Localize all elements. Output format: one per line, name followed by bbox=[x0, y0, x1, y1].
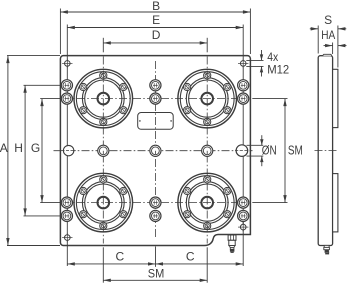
centerline horizontal middle row bbox=[54, 150, 253, 152]
hole column right bbox=[242, 25, 244, 232]
dimension D bbox=[103, 28, 207, 52]
side view grease nipple bbox=[324, 245, 330, 254]
dimension B bbox=[60, 0, 250, 54]
centerline vertical left flange column bbox=[102, 57, 104, 244]
plate outline bbox=[60, 56, 250, 246]
side view centerline bbox=[315, 149, 337, 151]
dimension N right bbox=[247, 135, 277, 166]
nameplate bbox=[138, 113, 174, 130]
dimension S bbox=[310, 13, 347, 68]
corner hole bottom-right bbox=[238, 222, 248, 232]
centerline vertical middle column bbox=[154, 61, 156, 237]
flange U3 bottom-left bbox=[74, 173, 133, 232]
mid hole row center bbox=[150, 145, 161, 156]
grease nipple front view bbox=[228, 235, 236, 253]
centerline horizontal bottom flange row bbox=[63, 202, 249, 204]
svg-text:H: H bbox=[14, 141, 23, 155]
dimension 4x M12 bbox=[246, 50, 289, 77]
mid hole left edge bbox=[62, 145, 76, 155]
flange U2 top-right bbox=[178, 69, 237, 128]
dimension HA bbox=[321, 28, 346, 54]
side view top lip bbox=[323, 54, 332, 55]
dimension SM right bbox=[252, 99, 303, 203]
svg-text:G: G bbox=[31, 141, 40, 155]
dimension C pair bbox=[67, 247, 243, 267]
side plug pair center bottom bbox=[150, 197, 161, 221]
svg-text:HA: HA bbox=[321, 28, 335, 42]
side plug pair center top bbox=[150, 80, 161, 104]
svg-text:S: S bbox=[324, 13, 332, 27]
hole column right lower (corner hole to C dim) bbox=[242, 221, 244, 266]
side view boss top bbox=[333, 69, 338, 127]
svg-text:A: A bbox=[0, 141, 8, 155]
side view body bbox=[318, 56, 332, 246]
side view boss bottom bbox=[333, 174, 338, 232]
svg-text:B: B bbox=[152, 0, 160, 13]
hole N right edge bbox=[235, 145, 249, 157]
svg-text:ØN: ØN bbox=[262, 144, 277, 158]
dimension E bbox=[67, 13, 243, 29]
svg-text:C: C bbox=[115, 250, 124, 264]
mid hole row right flange column bbox=[202, 145, 213, 156]
flange U4 bottom-right bbox=[178, 173, 237, 232]
side plug pair left top bbox=[61, 80, 72, 104]
dimension SM bottom bbox=[103, 247, 207, 282]
dimension H bbox=[14, 85, 61, 216]
svg-text:C: C bbox=[186, 250, 195, 264]
svg-text:M12: M12 bbox=[267, 62, 289, 76]
hole column left bbox=[66, 25, 68, 267]
side plug pair right top bbox=[238, 80, 249, 104]
svg-text:E: E bbox=[152, 13, 160, 27]
flange U1 top-left bbox=[74, 69, 133, 128]
dimension G bbox=[31, 99, 61, 203]
side plug pair right bottom bbox=[238, 197, 249, 221]
centerline horizontal top flange row bbox=[63, 98, 249, 100]
svg-text:SM: SM bbox=[288, 144, 303, 158]
svg-text:SM: SM bbox=[148, 267, 165, 281]
svg-text:D: D bbox=[152, 28, 161, 42]
corner hole bottom-left bbox=[62, 233, 72, 243]
corner hole top-right bbox=[238, 59, 248, 69]
corner hole top-left bbox=[62, 59, 72, 69]
centerline vertical right flange column bbox=[206, 57, 208, 244]
dimension A bbox=[0, 56, 60, 246]
mid hole row left flange column bbox=[98, 145, 109, 156]
side plug pair left bottom bbox=[61, 197, 72, 221]
